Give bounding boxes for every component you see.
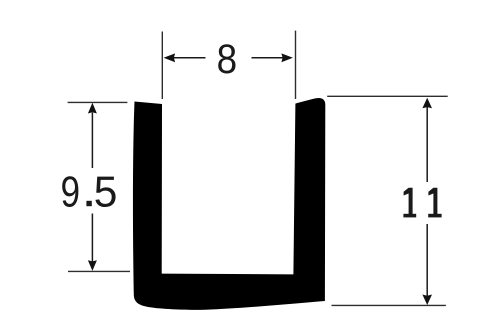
extension line, inner-right (dim 8) (295, 31, 297, 99)
U-channel profile cross-section (133, 98, 325, 310)
arrowhead up (dim 11) (422, 98, 432, 109)
extension line, bottom-right (dim 11) (332, 304, 446, 306)
dimension text 9.5 (62, 176, 78, 207)
extension line, top-right (dim 11) (327, 95, 448, 97)
extension line, top-left (dim 9.5) (68, 101, 128, 103)
arrowhead up (dim 9.5) (88, 103, 97, 114)
dimension arrow right (dim 8) (252, 57, 284, 59)
dimension text 9.5 digit 5 (95, 177, 115, 207)
dimension text 11 (drawn glyphs with footed ones) (403, 188, 441, 218)
dimension arrow left (dim 8) (174, 57, 206, 59)
extension line, inner-left (dim 8) (161, 32, 163, 100)
arrowhead down (dim 9.5) (88, 260, 97, 271)
arrowhead down (dim 11) (422, 295, 432, 306)
dimension line vertical (dim 9.5) (91, 113, 93, 169)
dimension text 8 (218, 44, 235, 73)
dimension text 9.5 decimal point (86, 201, 91, 206)
dimension line vertical (dim 11) (426, 107, 428, 182)
extension line, bottom-left (dim 9.5) (68, 270, 130, 272)
